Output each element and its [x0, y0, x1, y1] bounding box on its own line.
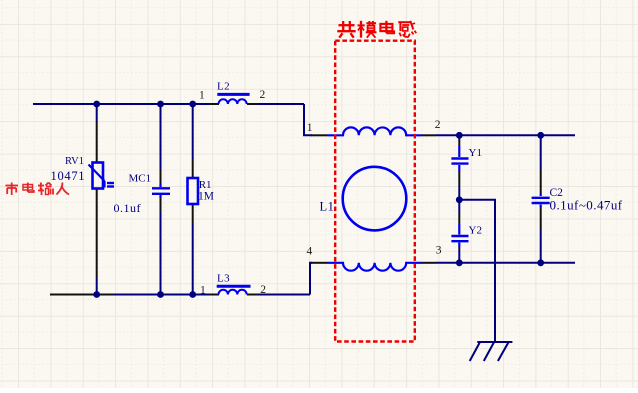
svg-text:L3: L3 — [217, 272, 230, 284]
svg-text:1: 1 — [200, 285, 206, 297]
svg-text:3: 3 — [436, 245, 442, 257]
svg-text:Y1: Y1 — [469, 147, 482, 159]
svg-text:1: 1 — [307, 122, 313, 134]
svg-text:2: 2 — [435, 119, 441, 131]
svg-text:L2: L2 — [217, 81, 230, 93]
svg-text:4: 4 — [307, 246, 313, 258]
svg-text:MC1: MC1 — [129, 173, 152, 185]
svg-text:RV1: RV1 — [65, 156, 84, 167]
svg-text:Y2: Y2 — [469, 225, 482, 237]
svg-text:2: 2 — [260, 284, 266, 296]
svg-text:R1: R1 — [199, 179, 212, 191]
svg-text:0.1uf~0.47uf: 0.1uf~0.47uf — [550, 197, 623, 212]
svg-text:10471: 10471 — [51, 169, 86, 183]
svg-text:1M: 1M — [198, 191, 214, 203]
svg-text:L1: L1 — [320, 200, 335, 214]
svg-text:0.1uf: 0.1uf — [114, 201, 142, 215]
svg-text:2: 2 — [260, 89, 266, 101]
svg-text:1: 1 — [199, 90, 205, 102]
